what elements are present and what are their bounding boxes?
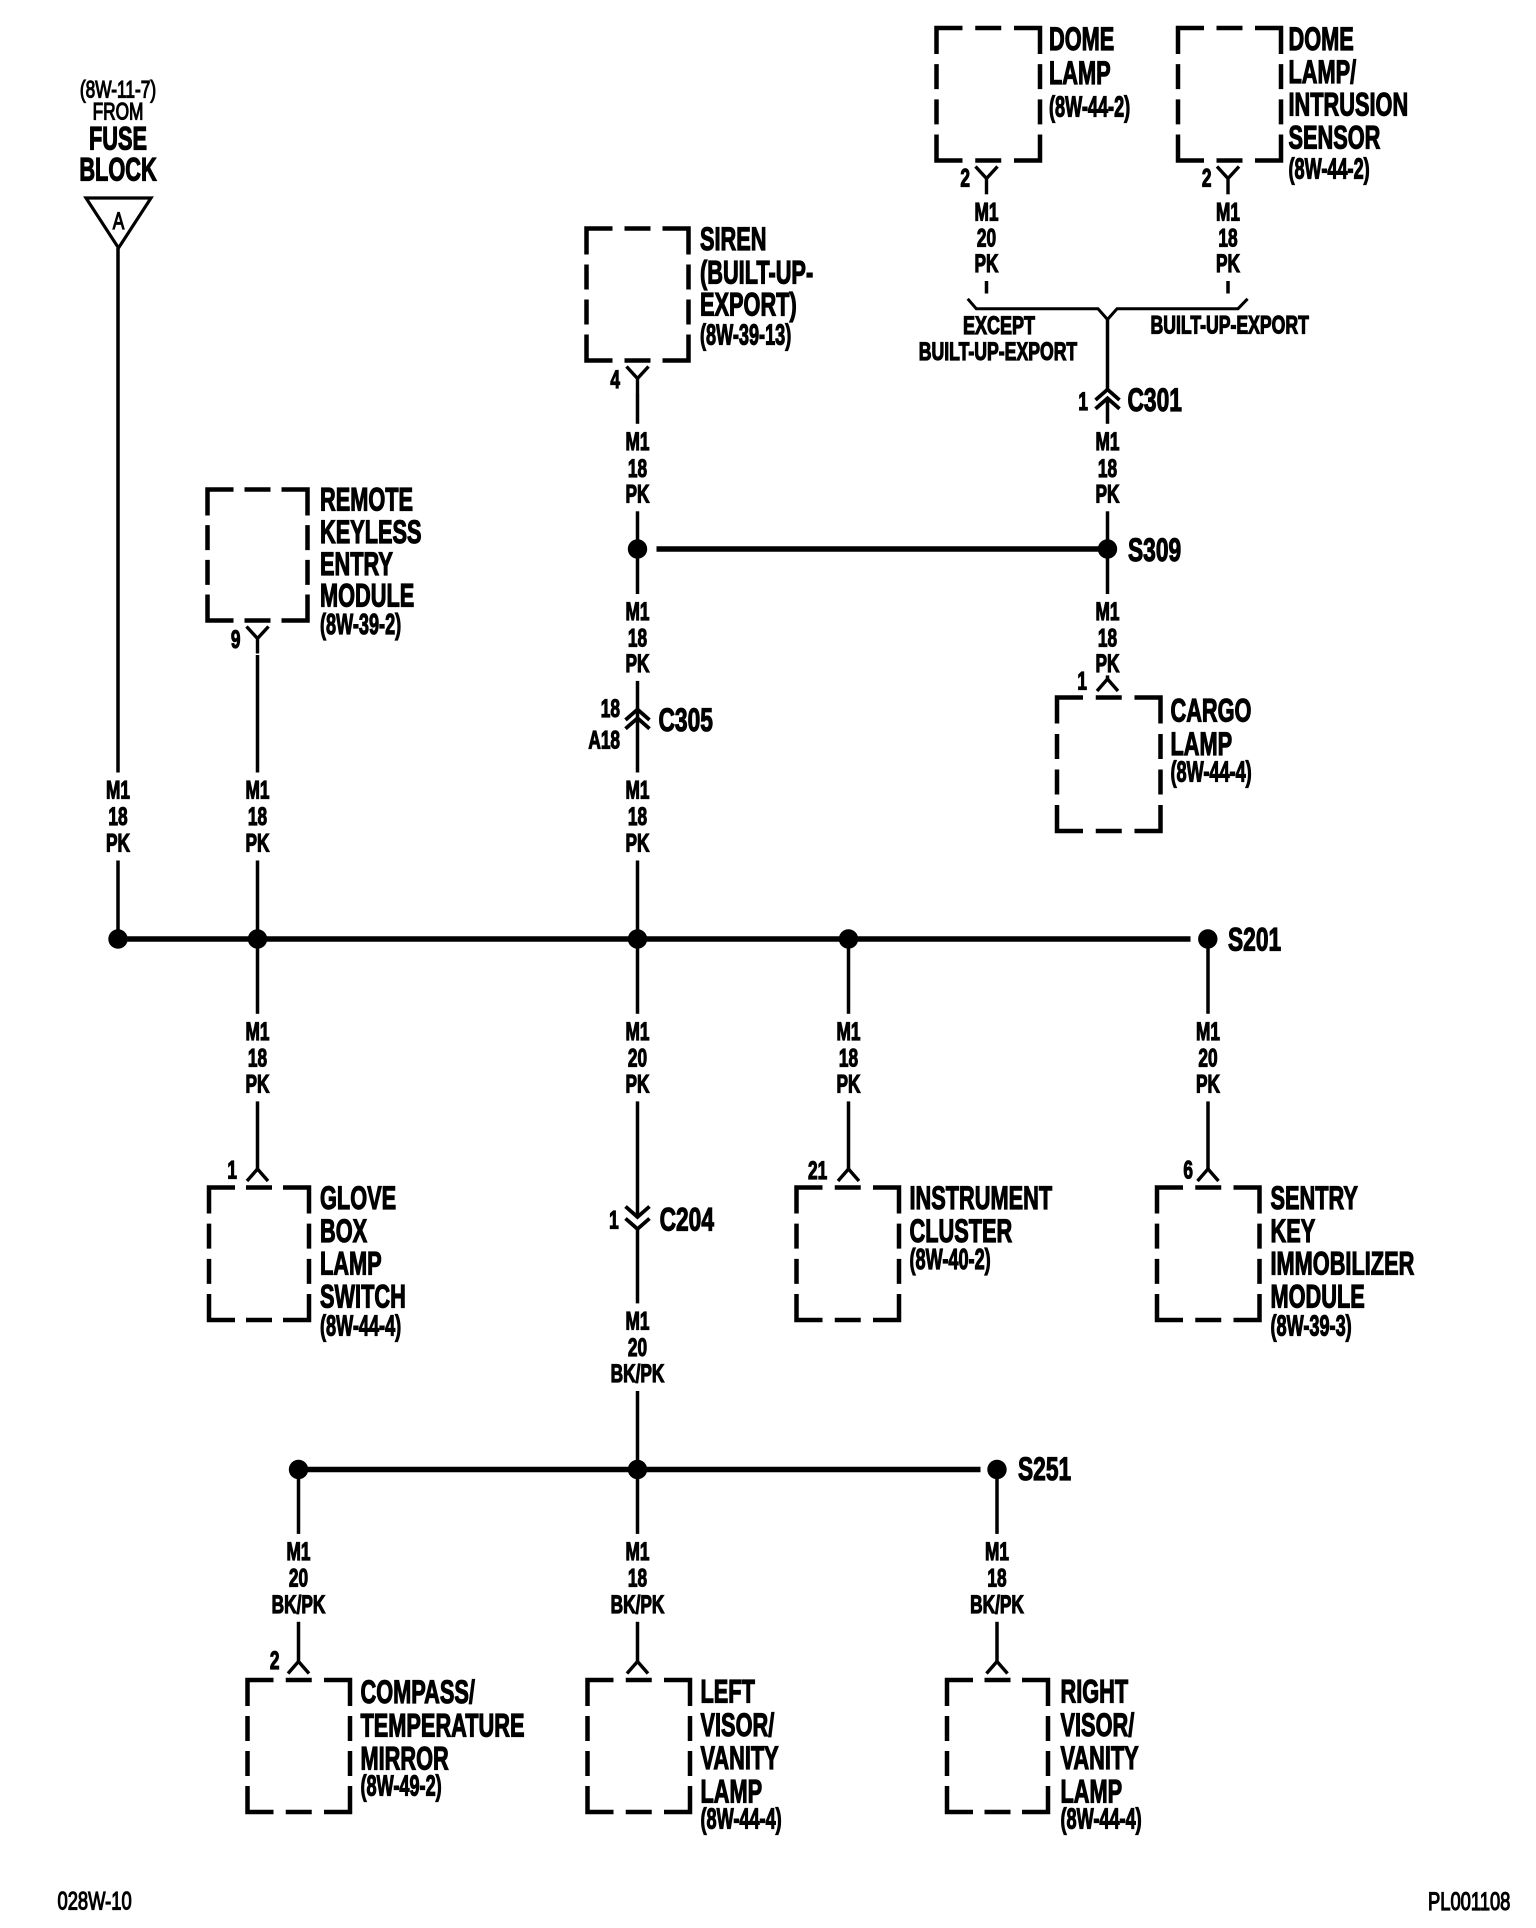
- label M1 20 PK (C204 wire upper): [619, 1014, 656, 1102]
- svg-text:2: 2: [1202, 164, 1212, 192]
- svg-text:M1: M1: [626, 598, 650, 626]
- svg-text:SENTRY: SENTRY: [1271, 1180, 1358, 1216]
- component label: CARGO LAMP: [1171, 692, 1252, 788]
- pin 2 (dome lamp): [960, 164, 970, 192]
- svg-text:PK: PK: [1196, 1070, 1220, 1098]
- connector C301: [1096, 390, 1120, 409]
- component label: COMPASS/TEMPERATURE MIRROR: [361, 1674, 525, 1803]
- component label: LEFT VISOR/VANITY LAMP: [701, 1673, 782, 1835]
- option label BUILT-UP-EXPORT: [1150, 310, 1308, 339]
- svg-text:BK/PK: BK/PK: [611, 1360, 665, 1388]
- splice label S201: [1228, 922, 1281, 958]
- svg-text:M1: M1: [1196, 1018, 1220, 1046]
- svg-text:PK: PK: [626, 829, 650, 857]
- connector C305: [626, 709, 650, 728]
- wire: C301 to splice S309: [1106, 398, 1110, 549]
- svg-text:LAMP: LAMP: [320, 1245, 382, 1281]
- svg-text:BK/PK: BK/PK: [272, 1591, 326, 1619]
- wire: siren to splice S201: [636, 394, 640, 940]
- pin 2 (compass/temperature mirror): [270, 1647, 280, 1675]
- pin 9 (remote keyless entry module): [231, 626, 241, 654]
- wire: C204 to splice S251: [636, 1229, 640, 1470]
- svg-text:IMMOBILIZER: IMMOBILIZER: [1271, 1245, 1415, 1281]
- svg-text:VISOR/: VISOR/: [701, 1707, 775, 1743]
- svg-text:20: 20: [1198, 1044, 1217, 1072]
- svg-text:VISOR/: VISOR/: [1061, 1707, 1135, 1743]
- wire: S201 to instrument cluster: [838, 939, 859, 1181]
- pin 1 (C204): [609, 1207, 619, 1235]
- svg-text:PK: PK: [246, 1070, 270, 1098]
- svg-text:18: 18: [987, 1564, 1006, 1592]
- svg-text:CARGO: CARGO: [1171, 692, 1252, 728]
- pin 21 (instrument cluster): [808, 1157, 827, 1185]
- svg-text:ENTRY: ENTRY: [320, 546, 393, 582]
- svg-text:18: 18: [1218, 224, 1237, 252]
- svg-text:PK: PK: [626, 650, 650, 678]
- svg-text:LAMP: LAMP: [1049, 55, 1111, 91]
- connector fork at RKE pin 9: [247, 627, 269, 654]
- junction dot at siren wire (S309): [628, 539, 647, 558]
- svg-text:20: 20: [628, 1334, 647, 1362]
- svg-text:M1: M1: [626, 1018, 650, 1046]
- svg-text:18: 18: [628, 1564, 647, 1592]
- svg-text:KEYLESS: KEYLESS: [320, 514, 422, 550]
- svg-text:A18: A18: [588, 727, 620, 755]
- sheet number 028W-10: [58, 1887, 132, 1915]
- svg-text:20: 20: [628, 1044, 647, 1072]
- svg-text:M1: M1: [287, 1538, 311, 1566]
- svg-text:BLOCK: BLOCK: [79, 151, 157, 187]
- svg-text:18: 18: [839, 1044, 858, 1072]
- junction dot S251 at compass mirror wire: [289, 1460, 308, 1479]
- svg-text:M1: M1: [246, 776, 270, 804]
- svg-text:DOME: DOME: [1049, 21, 1114, 57]
- component: GLOVE BOX LAMP SWITCH: [209, 1185, 309, 1322]
- pin 6 (sentry key immobilizer module): [1183, 1156, 1193, 1184]
- svg-text:PK: PK: [975, 250, 999, 278]
- svg-text:C305: C305: [659, 702, 713, 738]
- pin 1 (glove box lamp switch): [227, 1156, 237, 1184]
- svg-text:A: A: [113, 208, 125, 234]
- svg-text:18: 18: [108, 803, 127, 831]
- svg-text:EXPORT): EXPORT): [700, 286, 797, 322]
- svg-text:BK/PK: BK/PK: [611, 1591, 665, 1619]
- svg-text:6: 6: [1183, 1156, 1193, 1184]
- svg-text:20: 20: [289, 1564, 308, 1592]
- label M1 18 PK (intrusion sensor wire): [1210, 194, 1247, 281]
- component label: DOME LAMP/INTRUSION SENSOR: [1289, 21, 1409, 186]
- splice S309 tie line: [657, 546, 1108, 552]
- svg-text:C204: C204: [660, 1201, 715, 1237]
- svg-text:PK: PK: [1216, 250, 1240, 278]
- svg-text:(8W-44-2): (8W-44-2): [1049, 91, 1130, 123]
- splice label S309: [1128, 532, 1181, 568]
- component: CARGO LAMP: [1057, 695, 1161, 833]
- svg-text:PK: PK: [106, 829, 130, 857]
- svg-text:PL001108: PL001108: [1428, 1887, 1510, 1915]
- splice S251: [987, 1460, 1006, 1479]
- splice S201: [1198, 929, 1217, 948]
- svg-text:LAMP/: LAMP/: [1289, 54, 1357, 90]
- splice S201 bus: [118, 936, 1191, 942]
- component: SIREN (BUILT-UP-EXPORT): [587, 226, 689, 363]
- svg-text:INSTRUMENT: INSTRUMENT: [910, 1180, 1053, 1216]
- svg-text:(8W-44-4): (8W-44-4): [1171, 756, 1252, 788]
- svg-text:18: 18: [1098, 624, 1117, 652]
- svg-text:VANITY: VANITY: [701, 1740, 779, 1776]
- component: SENTRY KEY IMMOBILIZER MODULE: [1157, 1185, 1260, 1322]
- svg-text:RIGHT: RIGHT: [1061, 1673, 1129, 1709]
- label M1 18 PK (glove box wire): [239, 1014, 276, 1102]
- component label: RIGHT VISOR/VANITY LAMP: [1061, 1673, 1142, 1835]
- svg-text:PK: PK: [1096, 650, 1120, 678]
- svg-text:PK: PK: [626, 1070, 650, 1098]
- svg-text:9: 9: [231, 626, 241, 654]
- svg-text:2: 2: [270, 1647, 280, 1675]
- svg-text:M1: M1: [626, 776, 650, 804]
- label M1 18 PK (siren wire): [619, 424, 656, 512]
- drawing number PL001108: [1428, 1887, 1510, 1915]
- svg-text:BUILT-UP-EXPORT: BUILT-UP-EXPORT: [1150, 310, 1308, 339]
- svg-text:M1: M1: [1096, 598, 1120, 626]
- pin 18 (C305 upper cavity): [601, 695, 620, 723]
- svg-text:C301: C301: [1128, 382, 1182, 418]
- svg-text:1: 1: [227, 1156, 237, 1184]
- svg-text:KEY: KEY: [1271, 1213, 1316, 1249]
- svg-text:GLOVE: GLOVE: [320, 1180, 396, 1216]
- svg-text:(8W-44-2): (8W-44-2): [1289, 153, 1370, 185]
- svg-text:18: 18: [601, 695, 620, 723]
- wire: splice S309 to cargo lamp: [1097, 549, 1118, 691]
- pin A18 (C305 lower cavity): [588, 727, 620, 755]
- svg-text:18: 18: [628, 455, 647, 483]
- label M1 20 BK/PK (C204-S251 wire): [605, 1303, 671, 1391]
- svg-text:TEMPERATURE: TEMPERATURE: [361, 1707, 525, 1743]
- option label EXCEPT BUILT-UP-EXPORT: [919, 311, 1077, 366]
- junction dot S201 at instrument cluster wire: [839, 929, 858, 948]
- label M1 18 PK (RKE wire): [239, 773, 276, 861]
- svg-text:(8W-39-2): (8W-39-2): [320, 609, 401, 641]
- svg-text:(8W-39-13): (8W-39-13): [700, 319, 791, 351]
- wire: S251 to compass/temperature mirror: [288, 1470, 309, 1674]
- svg-text:PK: PK: [1096, 480, 1120, 508]
- svg-text:DOME: DOME: [1289, 21, 1354, 57]
- svg-text:S309: S309: [1128, 532, 1181, 568]
- connector fork at siren pin 4: [627, 367, 649, 394]
- feed symbol A: (8W-11-7) FROM FUSE BLOCK: [79, 77, 157, 248]
- svg-text:(8W-44-4): (8W-44-4): [701, 1803, 782, 1835]
- label M1 20 PK (sentry key wire): [1190, 1014, 1227, 1102]
- svg-text:SIREN: SIREN: [700, 221, 767, 257]
- splice S251 bus: [299, 1467, 981, 1473]
- pin 4 (siren): [610, 366, 620, 394]
- component label: INSTRUMENT CLUSTER: [910, 1180, 1053, 1276]
- splice label S251: [1018, 1451, 1071, 1487]
- label M1 18 PK (S309-cargo wire): [1089, 594, 1126, 678]
- pin 1 (C301): [1078, 388, 1088, 416]
- svg-text:M1: M1: [975, 198, 999, 226]
- component label: SENTRY KEY IMMOBILIZER MODULE: [1271, 1180, 1415, 1343]
- svg-text:20: 20: [977, 224, 996, 252]
- component: COMPASS/TEMPERATURE MIRROR: [248, 1678, 351, 1815]
- svg-text:(8W-39-3): (8W-39-3): [1271, 1310, 1352, 1342]
- component label: SIREN: [700, 221, 813, 352]
- wire: dome lamp to option brace: [985, 194, 989, 294]
- wire: S201 to sentry key immobilizer module: [1198, 939, 1219, 1181]
- svg-text:18: 18: [1098, 455, 1117, 483]
- svg-text:M1: M1: [626, 1538, 650, 1566]
- label M1 18 PK (instrument cluster wire): [830, 1014, 867, 1102]
- label M1 18 PK (C305-S201 wire): [619, 773, 656, 861]
- wire: S201 to glove box lamp switch: [247, 939, 268, 1181]
- svg-text:(BUILT-UP-: (BUILT-UP-: [700, 254, 813, 290]
- pin 2 (intrusion sensor): [1202, 164, 1212, 192]
- component label: DOME LAMP: [1049, 21, 1130, 124]
- connector label C305: [659, 702, 713, 738]
- component label: GLOVE BOX LAMP SWITCH: [320, 1180, 406, 1343]
- label M1 18 BK/PK (left visor wire): [605, 1534, 671, 1622]
- svg-text:SWITCH: SWITCH: [320, 1278, 406, 1314]
- svg-text:M1: M1: [1096, 428, 1120, 456]
- svg-text:INTRUSION: INTRUSION: [1289, 86, 1409, 122]
- pin 1 (cargo lamp): [1077, 667, 1087, 695]
- label M1 18 PK (S309-C305 wire): [619, 594, 656, 681]
- svg-text:EXCEPT: EXCEPT: [963, 311, 1036, 340]
- svg-text:18: 18: [248, 1044, 267, 1072]
- svg-text:21: 21: [808, 1157, 827, 1185]
- connector C204: [626, 1207, 650, 1230]
- junction dot S201 at siren wire: [628, 929, 647, 948]
- svg-text:(8W-49-2): (8W-49-2): [361, 1770, 442, 1802]
- label M1 18 PK (fuse feed wire): [100, 773, 137, 861]
- junction dot S201 at RKE wire: [248, 929, 267, 948]
- svg-text:M1: M1: [626, 1307, 650, 1335]
- svg-text:M1: M1: [1216, 198, 1240, 226]
- svg-text:PK: PK: [246, 829, 270, 857]
- label M1 18 BK/PK (right visor wire): [964, 1534, 1030, 1622]
- svg-text:18: 18: [628, 624, 647, 652]
- svg-text:028W-10: 028W-10: [58, 1887, 132, 1915]
- svg-text:1: 1: [1078, 388, 1088, 416]
- svg-text:4: 4: [610, 366, 620, 394]
- svg-text:SENSOR: SENSOR: [1289, 119, 1381, 155]
- svg-text:M1: M1: [626, 428, 650, 456]
- svg-text:1: 1: [609, 1207, 619, 1235]
- wire: S251 to right visor/vanity lamp: [987, 1470, 1008, 1674]
- component: LEFT VISOR/VANITY LAMP: [588, 1678, 691, 1815]
- component: INSTRUMENT CLUSTER: [797, 1185, 900, 1322]
- svg-text:VANITY: VANITY: [1061, 1740, 1139, 1776]
- label M1 18 PK (C301-S309 wire): [1089, 424, 1126, 512]
- svg-text:S251: S251: [1018, 1451, 1071, 1487]
- svg-text:M1: M1: [985, 1538, 1009, 1566]
- svg-text:BOX: BOX: [320, 1213, 368, 1249]
- svg-text:1: 1: [1077, 667, 1087, 695]
- svg-text:BK/PK: BK/PK: [970, 1591, 1024, 1619]
- junction dot S251 at left visor wire: [628, 1460, 647, 1479]
- component: RIGHT VISOR/VANITY LAMP: [947, 1678, 1048, 1815]
- wire: RKE module to splice S201: [256, 655, 260, 939]
- component: REMOTE KEYLESS ENTRY MODULE: [208, 487, 308, 623]
- svg-text:18: 18: [628, 803, 647, 831]
- svg-text:MODULE: MODULE: [1271, 1278, 1365, 1314]
- wire: brace to connector C301: [1106, 320, 1110, 390]
- svg-text:M1: M1: [837, 1018, 861, 1046]
- splice S309: [1098, 539, 1117, 558]
- svg-text:LEFT: LEFT: [701, 1673, 756, 1709]
- wire: intrusion sensor to option brace: [1226, 194, 1230, 294]
- svg-text:REMOTE: REMOTE: [320, 481, 413, 517]
- connector fork at dome lamp pin 2: [976, 167, 998, 194]
- svg-text:M1: M1: [246, 1018, 270, 1046]
- svg-text:S201: S201: [1228, 922, 1281, 958]
- svg-text:2: 2: [960, 164, 970, 192]
- svg-text:(8W-44-4): (8W-44-4): [320, 1310, 401, 1342]
- junction dot S201 at fuse feed: [108, 929, 127, 948]
- option brace EXCEPT/BUILT-UP-EXPORT: [968, 299, 1248, 320]
- component label: REMOTE KEYLESS ENTRY MODULE: [320, 481, 422, 641]
- connector label C301: [1128, 382, 1182, 418]
- label M1 20 BK/PK (compass mirror wire): [266, 1534, 332, 1622]
- label M1 20 PK (dome lamp wire): [968, 194, 1005, 281]
- connector fork at intrusion sensor pin 2: [1217, 167, 1239, 194]
- wire: fuse block feed to splice S201: [116, 248, 120, 939]
- component: DOME LAMP: [937, 26, 1041, 163]
- svg-text:(8W-44-4): (8W-44-4): [1061, 1803, 1142, 1835]
- component: DOME LAMP/INTRUSION SENSOR: [1178, 26, 1281, 163]
- wire: S251 to left visor/vanity lamp: [627, 1470, 648, 1674]
- svg-text:PK: PK: [837, 1070, 861, 1098]
- svg-text:18: 18: [248, 803, 267, 831]
- wire: S201 to connector C204: [636, 939, 640, 1217]
- svg-text:BUILT-UP-EXPORT: BUILT-UP-EXPORT: [919, 337, 1077, 366]
- svg-text:COMPASS/: COMPASS/: [361, 1674, 476, 1710]
- connector label C204: [660, 1201, 715, 1237]
- svg-text:M1: M1: [106, 776, 130, 804]
- svg-text:(8W-40-2): (8W-40-2): [910, 1244, 991, 1276]
- svg-text:PK: PK: [626, 480, 650, 508]
